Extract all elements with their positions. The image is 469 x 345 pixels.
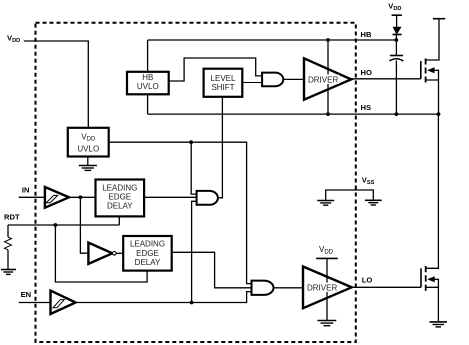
wire RDT line (8, 224, 119, 226)
wire LED1 bottom to RDT line (118, 216, 120, 225)
svg-text:EN: EN (21, 290, 32, 299)
ground below R1 (1, 270, 16, 275)
diode D1 bootstrap (393, 27, 402, 35)
svg-text:LEADING: LEADING (102, 183, 137, 192)
wire HB UVLO bottom to HS line (147, 94, 149, 114)
wire LEVEL SHIFT bottom to middle AND output (218, 97, 223, 198)
transistor Q2 (low side NMOS) (421, 266, 438, 321)
AND gate U2 (high-side enable) (262, 73, 283, 87)
svg-text:DRIVER: DRIVER (308, 76, 338, 85)
wire junction down to inverter (80, 197, 88, 253)
op-amp DRIVER (high side) (304, 40, 351, 114)
transistor Q1 (high side NMOS) (421, 59, 439, 115)
wire VDD bar to diode (396, 15, 398, 27)
op-amp DRIVER (low side) (303, 258, 352, 320)
svg-text:HO: HO (361, 68, 372, 77)
wire HS to Q2 drain (426, 114, 439, 268)
wire inverter to LED2 (116, 252, 123, 254)
wire diode to HB node (395, 35, 397, 41)
wire HB UVLO output to top AND input (169, 58, 263, 81)
svg-text:HB: HB (361, 30, 372, 39)
svg-text:DRIVER: DRIVER (307, 284, 337, 293)
IC boundary dashed box (36, 23, 356, 342)
wire LED1 output to middle AND input (144, 196, 197, 198)
block LEVEL SHIFT (204, 69, 243, 97)
wire LO line driver apex to Q2 gate (352, 286, 421, 288)
block HB UVLO (127, 72, 169, 95)
svg-text:IN: IN (22, 186, 30, 195)
node VDD-UVLO-OK junction (189, 140, 193, 144)
svg-text:EDGE: EDGE (136, 249, 159, 258)
svg-text:HS: HS (361, 103, 372, 112)
svg-text:HB: HB (142, 73, 153, 82)
svg-text:LEVEL: LEVEL (211, 74, 236, 83)
wire EN buffer output to LO AND (76, 292, 252, 303)
wire HS internal line (148, 113, 439, 115)
block LEADING EDGE DELAY 2 (123, 236, 172, 271)
buffer U4 IN schmitt (45, 187, 69, 208)
supply VDD bar LO driver (316, 257, 338, 259)
node capacitor-HS junction (395, 112, 399, 116)
svg-text:UVLO: UVLO (137, 82, 159, 91)
AND gate U6 (pulse gating, 3-input) (197, 191, 218, 205)
capacitor C1 bootstrap (390, 56, 404, 62)
AND gate U8 (low-side, 3-input) (252, 281, 274, 295)
wire VSS line (326, 190, 374, 200)
svg-text:SHIFT: SHIFT (211, 83, 234, 92)
pin VDD (left) label (7, 33, 20, 44)
resistor R1 (RDT) (5, 225, 12, 269)
wire VDD UVLO output to LO AND gate (109, 142, 252, 283)
block LEADING EDGE DELAY 1 (96, 180, 145, 217)
node Q1 source HS junction (437, 112, 441, 116)
wire junction down to middle AND top input (191, 142, 197, 194)
wire top AND output to driver (283, 78, 304, 80)
node driver-HB junction (326, 38, 330, 42)
HV rail (top right) (433, 18, 445, 20)
ground VSS internal (317, 201, 334, 206)
wire IN pin to buffer (19, 196, 45, 198)
node RDT junction (54, 223, 58, 227)
node diode-HB junction (394, 38, 398, 42)
wire HB UVLO top to HB line (147, 40, 149, 72)
wire HB node to capacitor (395, 40, 397, 55)
supply VDD bar (392, 14, 402, 16)
svg-text:DELAY: DELAY (107, 202, 133, 211)
wire VDD UVLO to ground (87, 157, 89, 166)
svg-text:DELAY: DELAY (135, 258, 161, 267)
wire LEVEL SHIFT output to top AND input (242, 82, 262, 84)
svg-text:UVLO: UVLO (77, 144, 99, 153)
wire VDD pin to VDD UVLO (24, 41, 88, 128)
wire LED2 output to LO AND input (172, 252, 252, 287)
wire EN junction up to middle AND input (192, 201, 197, 302)
node driver-HS junction (326, 112, 330, 116)
wire EN pin to buffer (19, 302, 51, 304)
inverter U5 (88, 243, 116, 264)
wire capacitor to HS line (395, 61, 397, 115)
wire HO line driver apex to MOSFET gate (351, 78, 421, 80)
ground VSS external (365, 200, 382, 205)
wire IN buffer output to LED1 (69, 196, 96, 198)
wire LO AND output to driver (274, 287, 304, 289)
svg-text:RDT: RDT (4, 213, 20, 222)
ground below LO driver (318, 321, 337, 326)
svg-text:LEADING: LEADING (130, 240, 165, 249)
buffer U7 EN schmitt (51, 291, 76, 314)
wire HB internal line (148, 39, 397, 41)
wire RDT junction to LED2 bottom (55, 225, 147, 282)
wire rail to Q1 drain (426, 19, 439, 60)
block VDD UVLO (68, 128, 109, 157)
ground below Q2 (430, 322, 448, 327)
node EN junction (190, 301, 194, 305)
svg-text:LO: LO (362, 276, 373, 285)
svg-text:EDGE: EDGE (108, 193, 131, 202)
ground below VDD UVLO (79, 166, 97, 171)
node IN-buffer output junction (79, 195, 83, 199)
